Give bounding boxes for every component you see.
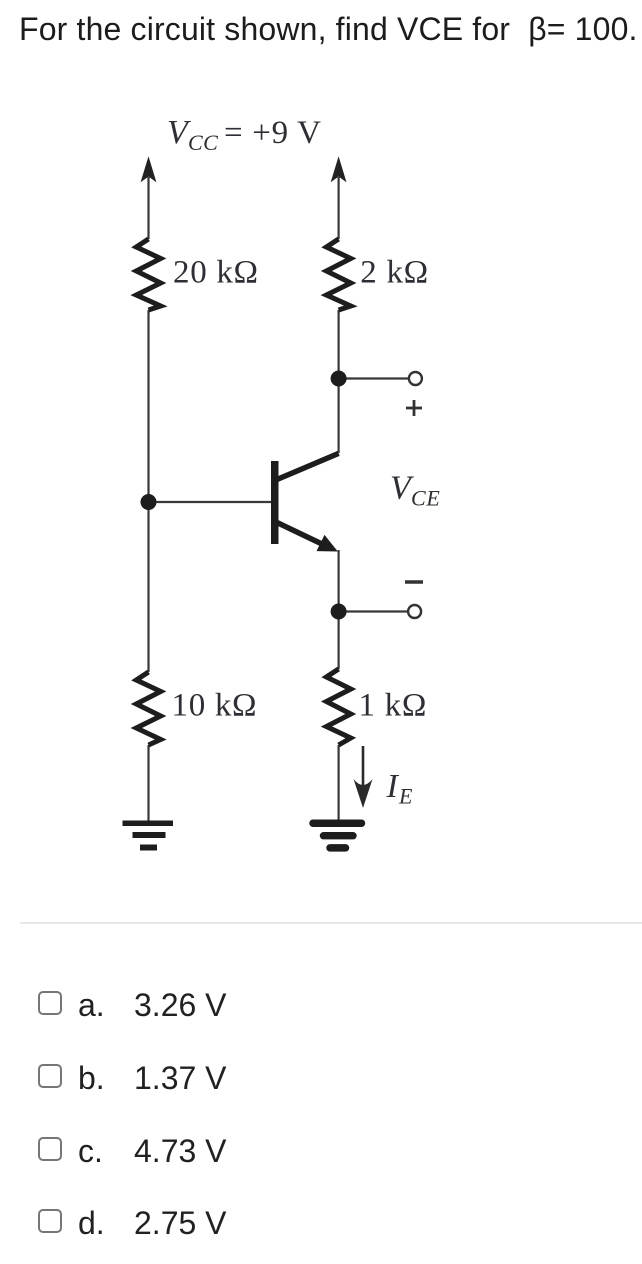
wire: R4 to ground (338, 745, 340, 820)
transistor Q1 collector stroke (277, 453, 339, 479)
wire: emitter to emitter node (338, 550, 340, 612)
plus sign (406, 400, 422, 416)
label 20 kOhm (173, 255, 259, 291)
power VCC arrow right (332, 158, 346, 181)
option b (0, 1064, 642, 1094)
circuit schematic (0, 0, 642, 900)
resistor R3 2 kOhm (326, 239, 350, 310)
resistor R2 10 kOhm (136, 672, 160, 745)
label IE (386, 768, 414, 809)
label 10 kOhm (172, 688, 258, 724)
svg-text:CE: CE (411, 486, 441, 511)
wire: right VCC lead (338, 177, 340, 239)
resistor R1 20 kOhm (136, 239, 160, 310)
transistor Q1 emitter stroke with arrow (277, 523, 338, 552)
current IE arrow (354, 746, 373, 808)
terminal: - open circle (408, 605, 421, 618)
node: base junction (141, 494, 157, 510)
wire: left column R2 to ground (147, 745, 149, 823)
transistor Q1 base bar (271, 461, 279, 544)
svg-text:10 kΩ: 10 kΩ (172, 688, 258, 724)
node: emitter junction (331, 604, 347, 620)
wire: base from divider node to transistor (149, 501, 272, 503)
svg-text:= +9 V: = +9 V (224, 115, 322, 151)
wire: left VCC lead (147, 177, 149, 239)
wire: left column between R1 and R2 (147, 310, 149, 672)
option a (0, 991, 642, 1021)
label 1 kOhm (359, 688, 428, 724)
ground left (123, 821, 174, 851)
resistor R4 1 kOhm (326, 669, 350, 745)
wire: emitter node to - terminal (339, 610, 409, 612)
label 2 kOhm (360, 255, 429, 291)
terminal: + open circle (409, 372, 422, 385)
node: collector junction (331, 371, 347, 387)
question title (19, 13, 638, 45)
svg-text:E: E (398, 784, 413, 809)
wire: emitter node to R4 (338, 612, 340, 669)
wire: collector node to + terminal (339, 377, 409, 379)
option c (0, 1137, 642, 1167)
wire: right column R3 to collector node (338, 310, 340, 453)
option d (0, 1209, 642, 1239)
label VCC = +9 V (167, 114, 322, 155)
divider line (20, 922, 642, 924)
svg-text:I: I (386, 768, 400, 805)
ground right (313, 823, 362, 848)
power VCC arrow left (142, 158, 156, 181)
minus sign (405, 580, 423, 584)
svg-text:1 kΩ: 1 kΩ (359, 688, 428, 724)
svg-text:2 kΩ: 2 kΩ (360, 255, 429, 291)
svg-text:20 kΩ: 20 kΩ (173, 255, 259, 291)
label VCE (390, 470, 441, 511)
svg-text:CC: CC (188, 130, 218, 155)
